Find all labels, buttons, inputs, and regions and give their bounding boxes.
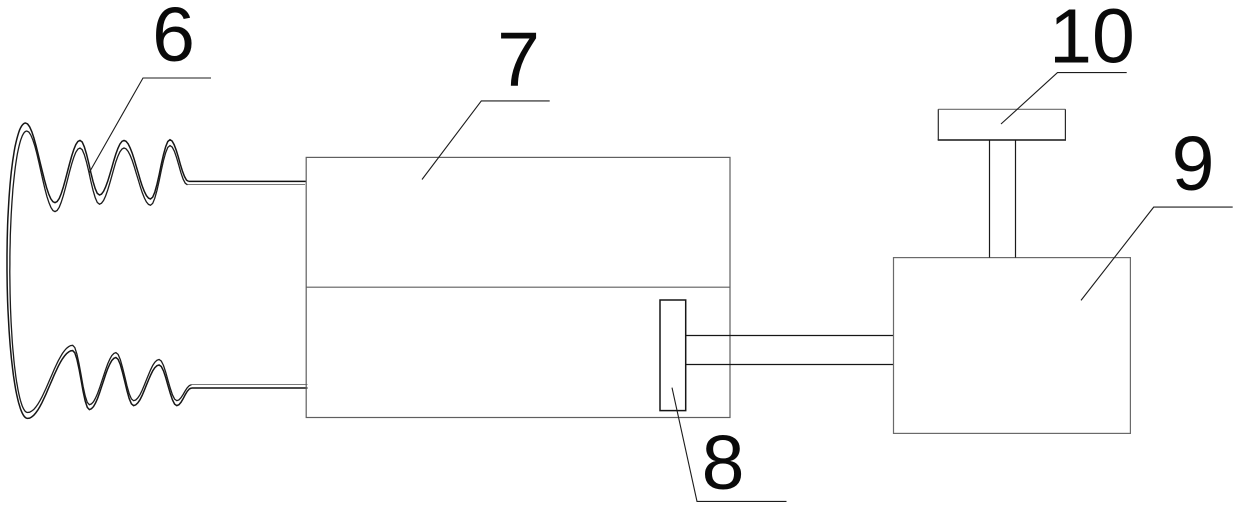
- svg-text:8: 8: [702, 420, 745, 506]
- svg-text:9: 9: [1172, 121, 1215, 207]
- svg-text:6: 6: [152, 0, 195, 78]
- svg-text:7: 7: [497, 17, 540, 103]
- svg-text:10: 10: [1049, 0, 1135, 80]
